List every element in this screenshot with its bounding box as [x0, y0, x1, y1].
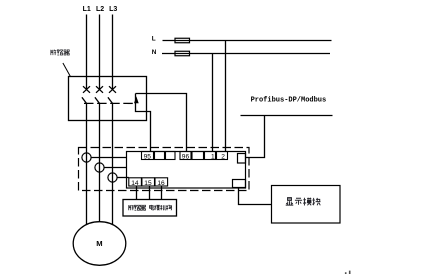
- contact X pole 2: [96, 86, 103, 93]
- terminal 2 box: [217, 152, 228, 160]
- label 断路器 (breaker) pseudo-glyphs: [51, 50, 69, 56]
- svg-text:M: M: [96, 239, 102, 248]
- label 断路器 电操机构 (operator box text) pseudo-glyphs: [129, 205, 172, 210]
- CT circle pole 3: [108, 173, 117, 182]
- terminal blank box b: [166, 152, 176, 160]
- wire N supply line: [162, 53, 330, 55]
- wire phase L3 lower run to motor: [112, 103, 114, 228]
- terminal 15 box: [142, 178, 155, 186]
- svg-text:Profibus-DP/Modbus: Profibus-DP/Modbus: [251, 96, 327, 104]
- CT circle pole 1: [82, 153, 91, 162]
- terminal 16 box: [155, 178, 168, 186]
- terminal blank box c: [192, 152, 204, 160]
- svg-text:2: 2: [221, 154, 225, 161]
- wire Profibus drop to comm terminal: [246, 116, 265, 158]
- svg-text:1: 1: [211, 154, 215, 161]
- wire N to terminal 1: [212, 54, 214, 152]
- wire aux contact to terminal 96: [136, 94, 187, 152]
- svg-text:L3: L3: [109, 6, 117, 13]
- wire phase L2 lower run to motor: [99, 103, 101, 226]
- display module box 显示模块: [272, 186, 341, 224]
- svg-text:15: 15: [144, 180, 152, 187]
- switch blade pole 1: [82, 97, 87, 103]
- partial cut-off watermark mark at bottom edge: [346, 271, 350, 274]
- svg-text:16: 16: [157, 180, 165, 187]
- wire terminal 15 to operator: [149, 186, 151, 200]
- contact X pole 3: [109, 86, 116, 93]
- switch blade pole 3: [108, 97, 113, 103]
- wire Profibus bus line: [241, 115, 333, 117]
- fuse FU1 on L: [175, 38, 190, 43]
- breaker assembly dashed boundary: [79, 148, 250, 191]
- wire phase L2 drop to contact: [99, 15, 101, 90]
- terminal 96 box: [180, 152, 191, 160]
- terminal 95 box: [142, 152, 154, 160]
- wire relay output to display module: [239, 188, 272, 205]
- svg-text:N: N: [152, 49, 157, 56]
- wire CT3 tap to relay: [117, 177, 129, 179]
- mechanical linkage dashed line: [84, 102, 134, 104]
- svg-text:96: 96: [182, 154, 190, 161]
- CT circle pole 2: [95, 163, 104, 172]
- svg-text:14: 14: [131, 180, 139, 187]
- terminal blank box a: [155, 152, 165, 160]
- motor M circle: [73, 222, 126, 266]
- wire L supply line: [163, 40, 332, 42]
- wire L to terminal 2: [225, 41, 227, 152]
- wire CT2 tap to relay: [104, 167, 126, 169]
- wire terminal 14 to operator: [136, 186, 138, 200]
- svg-text:L1: L1: [83, 6, 91, 13]
- wire phase L3 drop to contact: [112, 15, 114, 90]
- trip mechanism notch wire to terminal 95: [136, 94, 151, 152]
- wire phase L1 lower run to motor: [86, 103, 88, 228]
- label 显示模块 (display module text) pseudo-glyphs: [286, 198, 321, 206]
- wire CT1 tap to relay: [91, 157, 126, 159]
- comm terminal box top-right: [238, 154, 246, 164]
- relay unit U1 box: [127, 152, 246, 189]
- breaker QF outline box: [69, 77, 147, 121]
- switch blade pole 2: [95, 97, 100, 103]
- svg-text:L2: L2: [96, 6, 104, 13]
- motor operator box 断路器电操机构: [123, 200, 177, 217]
- fuse FU2 on N: [175, 51, 190, 56]
- terminal 1 box: [205, 152, 216, 160]
- terminal 14 box: [129, 178, 142, 186]
- wire phase L1 drop to contact: [86, 15, 88, 90]
- svg-text:L: L: [152, 36, 156, 43]
- wire terminal 16 to operator: [161, 186, 163, 200]
- output terminal box bottom-right: [233, 180, 246, 188]
- svg-text:95: 95: [144, 154, 152, 161]
- linkage arrowhead: [134, 96, 139, 103]
- contact X pole 1: [83, 86, 90, 93]
- breaker label 断路器 leader line: [63, 63, 71, 77]
